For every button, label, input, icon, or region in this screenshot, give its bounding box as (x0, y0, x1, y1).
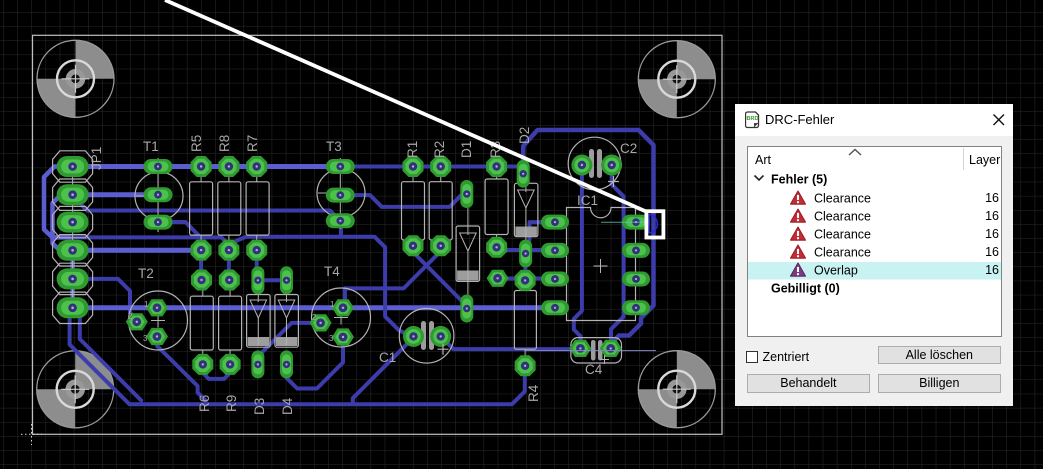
wire R6.bot to R9.bot U (203, 364, 230, 379)
resistor R9 (219, 270, 242, 413)
svg-text:16: 16 (985, 263, 999, 277)
svg-text:JP1: JP1 (89, 147, 104, 170)
transistor T3 (317, 139, 365, 229)
error highlight white rectangle (646, 211, 663, 237)
wire JP1.5 to T2.pin2 (73, 279, 140, 322)
overlap marker blue glyph (649, 214, 657, 233)
svg-text:IC1: IC1 (577, 193, 598, 208)
resistor R4 (514, 270, 541, 402)
row Clearance 4 (790, 245, 805, 258)
diode D4 (275, 266, 299, 415)
airwire stub at overlap pad (601, 221, 648, 223)
wire C1.right to C4.left (441, 336, 576, 349)
capacitor C4 (569, 338, 621, 377)
wire R2.bot diagonal then horizontal to T4.pin1 (345, 247, 441, 303)
svg-text:T4: T4 (324, 264, 340, 279)
wire R1.bot diagonal to D1.bot (413, 247, 467, 306)
error list box (747, 146, 1002, 337)
diode D1 (456, 141, 480, 323)
svg-text:Clearance: Clearance (814, 209, 871, 223)
svg-text:D1: D1 (459, 141, 474, 158)
wire T1.bot stub to 237 run (158, 222, 199, 236)
button Alle loeschen (878, 346, 1001, 364)
button Behandelt (747, 374, 870, 393)
IC U1 IC1 (541, 193, 650, 321)
svg-text:R5: R5 (189, 135, 204, 152)
svg-text:2: 2 (128, 312, 133, 321)
resistor R8 (217, 135, 241, 261)
svg-text:C2: C2 (620, 141, 637, 156)
svg-text:D3: D3 (252, 398, 267, 415)
close button X (992, 113, 1006, 127)
svg-text:C1: C1 (379, 350, 396, 365)
resistor R1 (402, 141, 425, 257)
wire T2.pin3 diagonal to bottom run (157, 339, 206, 401)
DRC error dialog window (735, 104, 1013, 406)
diode D2 (514, 127, 538, 268)
wire second JP1 diagonal (80, 316, 141, 400)
row Clearance 1 (790, 191, 805, 204)
svg-text:1: 1 (144, 300, 149, 309)
svg-text:R2: R2 (432, 141, 447, 158)
resistor R2 (429, 141, 452, 257)
svg-text:3: 3 (329, 334, 334, 343)
wire top row bright JP1.1 to T3 (73, 164, 342, 169)
group row Fehler (754, 175, 763, 180)
wire T3.mid to D1.top (340, 195, 467, 207)
svg-text:T1: T1 (143, 139, 159, 154)
svg-text:BRD: BRD (746, 116, 758, 122)
transistor T1 (135, 139, 183, 232)
wire JP1 outer left loop (44, 167, 73, 238)
wire C1.left down-left to bottom run (353, 340, 411, 402)
capacitor C2 (568, 137, 637, 190)
transistor T4 (310, 264, 371, 347)
svg-text:1: 1 (330, 300, 335, 309)
wire R5.bot to R6.top (199, 250, 203, 280)
resistor R7 (245, 135, 269, 261)
svg-text:16: 16 (985, 245, 999, 259)
wire 237 run right of R8 down to C1.left (229, 237, 409, 335)
wire D4.bot to T4.pin3 (287, 340, 344, 389)
svg-text:R7: R7 (245, 135, 260, 152)
callout white line (165, 0, 646, 212)
svg-text:2: 2 (312, 313, 317, 322)
svg-text:Fehler (5): Fehler (5) (771, 172, 827, 186)
board outline (33, 35, 723, 434)
button Billigen (878, 374, 1001, 393)
wire R8.bot to R9.top (227, 250, 231, 280)
wire JP1.2 to T1.mid (73, 192, 152, 197)
dialog title bar (735, 104, 1013, 136)
svg-text:Clearance: Clearance (814, 245, 871, 259)
wire D3.top to D4.top (258, 278, 283, 282)
connector JP1 (53, 147, 104, 324)
wire IC1.p1L left stub (530, 222, 556, 240)
wire C3pad R4.top IC1.p3L row (498, 277, 553, 281)
wire JP1 inner left loop to pad4 (53, 195, 73, 251)
svg-text:16: 16 (985, 227, 999, 241)
wire JP1.4 to R5.bot (73, 248, 201, 253)
svg-text:R8: R8 (217, 135, 232, 152)
wire JP1 under-column verticals to bottom loop long run to R4.bot (70, 316, 525, 404)
svg-text:D2: D2 (517, 127, 532, 144)
wire 237 run to R8.bot (73, 237, 229, 244)
svg-text:R6: R6 (197, 395, 212, 412)
wire D2.top loop around C2 down right side (523, 130, 653, 342)
svg-text:Gebilligt (0): Gebilligt (0) (771, 281, 840, 295)
row Overlap selected (748, 262, 1001, 280)
capacitor C1 (379, 309, 454, 366)
checkbox Zentriert (746, 351, 758, 363)
wire R3.bot D2.bot IC1.p2L row (497, 248, 553, 252)
svg-text:R1: R1 (405, 141, 420, 158)
svg-text:Layer: Layer (969, 153, 1000, 167)
svg-text:R4: R4 (526, 384, 541, 402)
mounting hole top-left (37, 40, 114, 117)
row Clearance 3 (790, 227, 805, 240)
wire T3.bot stub to 237 run (339, 222, 343, 237)
svg-text:3: 3 (143, 334, 148, 343)
wire D2.bot to R4.top (523, 255, 527, 279)
mounting hole bottom-right (638, 351, 715, 428)
wire D3.bot to T4.pin2 (258, 323, 313, 357)
wire R7.bot to D3.top (255, 250, 259, 280)
wire row 308 bright JP1.6 to IC1 (73, 305, 553, 310)
svg-text:T2: T2 (138, 266, 154, 281)
diode D3 (247, 266, 271, 415)
svg-text:16: 16 (985, 209, 999, 223)
svg-text:16: 16 (985, 191, 999, 205)
BRD file icon (745, 111, 760, 129)
wire C2.right down to C4.right (611, 168, 624, 345)
svg-text:D4: D4 (280, 397, 295, 415)
svg-text:Art: Art (755, 153, 772, 167)
svg-text:Clearance: Clearance (814, 191, 871, 205)
list header (748, 147, 1001, 336)
svg-text:Overlap: Overlap (814, 263, 858, 277)
wire C2.left down between IC1 columns to C4.left (574, 168, 582, 345)
airwire through C4 (525, 350, 656, 352)
svg-text:C4: C4 (585, 362, 603, 377)
svg-text:Clearance: Clearance (814, 227, 871, 241)
mounting hole bottom-left (37, 351, 114, 428)
svg-text:T3: T3 (326, 139, 342, 154)
resistor R6 (190, 270, 213, 413)
wire top row T3 to D2 (342, 165, 523, 169)
origin cross (21, 424, 42, 445)
transistor T2 (126, 266, 188, 350)
wire JP1 column pads 4-6 vertical (70, 250, 75, 307)
resistor R5 (189, 135, 213, 261)
wire mid run y210 through R5 R8 R7 to T3.bot (76, 196, 340, 221)
mounting hole top-right (638, 41, 715, 118)
svg-text:R9: R9 (224, 395, 239, 412)
row Clearance 2 (790, 209, 805, 222)
resistor R3 (485, 141, 508, 258)
pad C3 (487, 270, 509, 287)
